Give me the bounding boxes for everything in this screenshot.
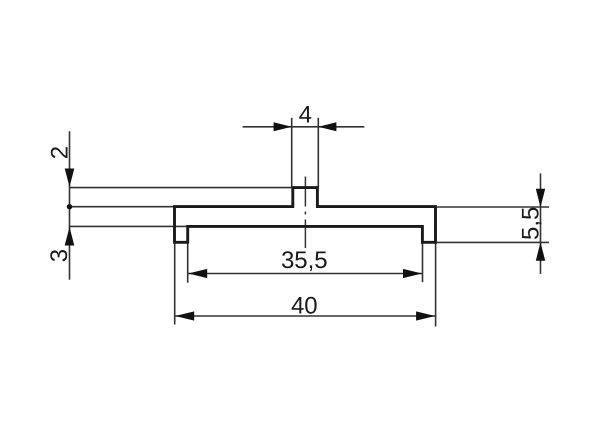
svg-text:5,5: 5,5 — [517, 207, 544, 240]
svg-text:35,5: 35,5 — [281, 247, 328, 274]
svg-text:3: 3 — [46, 249, 73, 262]
svg-text:2: 2 — [46, 146, 73, 159]
svg-text:40: 40 — [291, 293, 318, 320]
svg-text:4: 4 — [299, 102, 312, 129]
